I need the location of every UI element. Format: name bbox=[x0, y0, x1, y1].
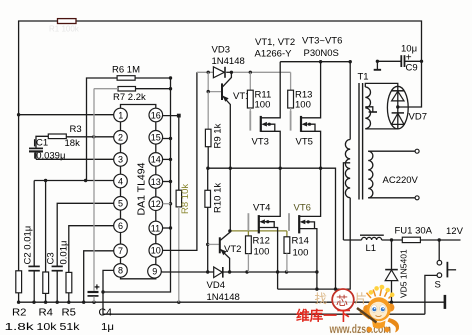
switch S bbox=[425, 240, 456, 314]
svg-text:R5: R5 bbox=[62, 308, 77, 319]
transformer T1 core bbox=[358, 83, 360, 200]
svg-text:5: 5 bbox=[118, 199, 123, 209]
capacitor C3 bbox=[52, 265, 63, 267]
svg-text:R3: R3 bbox=[70, 124, 82, 135]
transformer T1 primary winding bbox=[349, 62, 351, 140]
node pin12 junction bbox=[169, 202, 172, 205]
pin 16 bbox=[149, 108, 163, 122]
pin 6 bbox=[114, 219, 128, 233]
DA1 TL494 right pin chain bbox=[155, 122, 157, 131]
svg-text:2: 2 bbox=[118, 133, 123, 143]
pin 1 bbox=[114, 108, 128, 122]
pin 3 bbox=[114, 153, 128, 167]
node drain rail VT5 bbox=[319, 60, 322, 63]
svg-text:VT1, VT2: VT1, VT2 bbox=[255, 37, 295, 48]
node FU1-switch bbox=[438, 238, 441, 241]
svg-text:R4: R4 bbox=[39, 308, 54, 319]
node bus-C2 bbox=[32, 301, 35, 304]
node rail-R11 bbox=[249, 71, 252, 74]
svg-text:12: 12 bbox=[151, 199, 161, 209]
wire pin5 bbox=[57, 203, 113, 266]
svg-text:A1266-Y: A1266-Y bbox=[255, 49, 293, 60]
pin 13 bbox=[149, 175, 163, 189]
resistor R1 bbox=[58, 19, 77, 24]
wire pin16 stub bbox=[163, 115, 179, 117]
wire VT1 base feed gray bbox=[208, 72, 222, 91]
resistor R10 bbox=[207, 168, 209, 190]
node mid rail VT3/VT4 bbox=[279, 167, 282, 170]
inductor L1 bbox=[343, 239, 361, 241]
svg-text:51k: 51k bbox=[60, 322, 81, 333]
node bus-C4 bbox=[92, 301, 95, 304]
svg-text:R1 100k: R1 100k bbox=[49, 25, 80, 34]
wire VD7 bottom to L1 bbox=[365, 128, 398, 130]
node mid rail VT5/VT6 bbox=[319, 167, 322, 170]
svg-text:1N4148: 1N4148 bbox=[207, 292, 240, 303]
svg-text:VT2: VT2 bbox=[224, 244, 241, 255]
svg-text:R10 1k: R10 1k bbox=[213, 183, 224, 213]
wire W1 to primary bottom bbox=[278, 198, 351, 289]
svg-text:片: 片 bbox=[355, 292, 368, 306]
wire pin2 from R3 bbox=[66, 136, 113, 138]
transistor VT6 MOSFET bbox=[289, 168, 321, 289]
svg-text:100: 100 bbox=[295, 100, 311, 111]
node pin9-R10 bbox=[206, 270, 209, 273]
pin 2 bbox=[114, 131, 128, 145]
svg-text:VT3: VT3 bbox=[252, 137, 269, 148]
svg-text:VD7: VD7 bbox=[409, 112, 427, 123]
node pin14 junction bbox=[169, 158, 172, 161]
node mid rail VT1/VT2 bbox=[229, 167, 232, 170]
svg-text:C1: C1 bbox=[36, 138, 48, 149]
svg-text:C4: C4 bbox=[99, 308, 113, 319]
svg-text:VT4: VT4 bbox=[253, 203, 270, 214]
wire secondary bottom lead + terminal bbox=[368, 197, 415, 199]
node VD4-VT6 source bbox=[315, 270, 318, 273]
svg-text:R7 2.2k: R7 2.2k bbox=[113, 92, 146, 103]
transistor Q VT2 A1266 bbox=[208, 231, 242, 272]
svg-text:S: S bbox=[435, 280, 441, 291]
svg-text:C3: C3 bbox=[46, 252, 57, 264]
diode VD3 1N4148 bbox=[213, 67, 224, 78]
pin 12 bbox=[149, 197, 163, 211]
wire pin4 bbox=[34, 180, 114, 182]
wire left border lower bbox=[18, 115, 20, 271]
ground stub at C9 bbox=[376, 60, 379, 63]
svg-text:10μ: 10μ bbox=[401, 44, 417, 55]
node C4 top bbox=[101, 290, 104, 293]
svg-text:L1: L1 bbox=[366, 243, 377, 254]
wire pin15 stub bbox=[163, 138, 171, 140]
resistor R5 bbox=[66, 272, 72, 292]
wire pin7 bbox=[84, 251, 114, 302]
pin 14 bbox=[149, 153, 163, 167]
node VD4-R14 bbox=[285, 270, 288, 273]
svg-text:15: 15 bbox=[151, 133, 161, 143]
svg-text:4: 4 bbox=[118, 176, 123, 186]
svg-text:8: 8 bbox=[118, 266, 123, 276]
transistor VT4 MOSFET bbox=[248, 168, 280, 289]
svg-text:1: 1 bbox=[118, 110, 123, 120]
wire pin3 bbox=[36, 158, 114, 160]
resistor R12 bbox=[247, 231, 249, 236]
svg-text:芯: 芯 bbox=[336, 294, 348, 308]
resistor R9 bbox=[205, 129, 211, 147]
diode VD5 1N5401 bbox=[391, 240, 393, 269]
resistor R14 bbox=[286, 231, 288, 237]
wire pin1 bbox=[19, 114, 114, 116]
svg-text:C9: C9 bbox=[406, 63, 418, 74]
node VD4-VT2 emitter bbox=[228, 270, 231, 273]
svg-text:11: 11 bbox=[151, 223, 160, 233]
svg-text:1.8k: 1.8k bbox=[5, 322, 36, 333]
svg-text:100: 100 bbox=[254, 247, 270, 258]
resistor R7 bbox=[118, 87, 136, 92]
resistor R8 bbox=[178, 116, 180, 191]
wire pin9 bbox=[161, 271, 317, 273]
node pin13 junction bbox=[169, 180, 172, 183]
wire mid rail bbox=[207, 168, 336, 289]
svg-text:10: 10 bbox=[151, 246, 161, 256]
node VD4-R12 bbox=[245, 270, 248, 273]
wire pin6 bbox=[69, 226, 114, 273]
node pin4-R6 bbox=[84, 179, 87, 182]
transistor Q VT1 A1266 bbox=[222, 72, 250, 168]
svg-text:AC220V: AC220V bbox=[383, 175, 419, 186]
capacitor C1 bbox=[29, 147, 43, 149]
transformer T1 aux winding bbox=[365, 87, 370, 129]
svg-text:1μ: 1μ bbox=[101, 322, 114, 333]
svg-text:0.01μ: 0.01μ bbox=[59, 241, 70, 265]
capacitor C9 bbox=[377, 44, 421, 74]
resistor R6 bbox=[117, 76, 135, 81]
node pin15 junction bbox=[169, 137, 172, 140]
svg-text:16: 16 bbox=[151, 110, 161, 120]
svg-text:9: 9 bbox=[152, 267, 157, 277]
svg-text:6: 6 bbox=[118, 221, 123, 231]
svg-text:R12: R12 bbox=[253, 236, 270, 247]
svg-text:R2: R2 bbox=[12, 308, 27, 319]
wire aux top lead bbox=[365, 83, 398, 87]
wire gray gate rail upper bbox=[197, 71, 213, 73]
pin 10 bbox=[149, 244, 163, 258]
svg-text:100: 100 bbox=[293, 248, 309, 259]
wire pin11 stub bbox=[163, 227, 171, 229]
svg-text:FU1 30A: FU1 30A bbox=[395, 226, 433, 237]
resistor R2 bbox=[16, 271, 22, 293]
node W1-midrail bbox=[334, 287, 337, 290]
node L1-VD5 bbox=[390, 238, 393, 241]
wire pin8 bbox=[103, 270, 114, 292]
resistor R4 bbox=[45, 181, 47, 273]
resistor R3 bbox=[48, 134, 66, 139]
svg-text:R9 1k: R9 1k bbox=[213, 123, 224, 148]
node bus-R8 bbox=[177, 301, 180, 304]
node VD4-VT4 source bbox=[276, 270, 279, 273]
wire VT2 collector riser bbox=[229, 168, 231, 231]
node R7 gray line to pin2 bbox=[92, 135, 95, 138]
svg-text:7: 7 bbox=[118, 246, 123, 256]
svg-text:C2 0.01μ: C2 0.01μ bbox=[23, 226, 34, 265]
node bus-pin7 bbox=[82, 301, 85, 304]
node drain rail T1 primary top bbox=[349, 60, 352, 63]
node pin11 junction bbox=[169, 226, 172, 229]
transformer T1 secondary winding bbox=[368, 151, 373, 198]
svg-text:VT3~VT6: VT3~VT6 bbox=[302, 36, 342, 47]
node rail-VT1base line bbox=[207, 71, 210, 74]
pin 8 bbox=[114, 264, 128, 278]
resistor R11 bbox=[249, 72, 251, 90]
svg-text:T1: T1 bbox=[358, 72, 369, 83]
watermark bbox=[296, 285, 399, 335]
svg-text:VD4: VD4 bbox=[207, 280, 225, 291]
node bus-C3 bbox=[56, 301, 59, 304]
svg-text:14: 14 bbox=[151, 155, 161, 165]
node bus-VD5 bbox=[390, 301, 393, 304]
svg-text:P30N0S: P30N0S bbox=[304, 48, 339, 59]
node pin4-R4 bbox=[44, 179, 47, 182]
wire pin13 stub bbox=[163, 181, 171, 183]
node VT1 base bbox=[207, 90, 210, 93]
DA1 TL494 left pin chain bbox=[120, 122, 122, 131]
wire pin12 stub bbox=[163, 203, 171, 205]
wire gray VT1base to R9 bbox=[207, 92, 209, 130]
DA1 TL494 box bottom edge bbox=[121, 277, 156, 279]
svg-text:找: 找 bbox=[315, 292, 328, 306]
svg-text:VD5 1N5401: VD5 1N5401 bbox=[399, 249, 409, 298]
pin 4 bbox=[114, 174, 128, 188]
diode VD4 1N4148 bbox=[214, 267, 223, 278]
svg-text:18k: 18k bbox=[65, 138, 81, 149]
node VD3 cathode / VT1 collector bbox=[230, 71, 233, 74]
op-amp U1 DA1 TL494 box top edge bbox=[121, 105, 156, 109]
resistor R13 bbox=[290, 72, 292, 90]
wire pin10 to gray rail riser bbox=[162, 72, 197, 250]
pin 9 bbox=[148, 265, 162, 279]
wire olive gate rail lower bbox=[230, 230, 287, 232]
aux center tap mark bbox=[365, 107, 373, 112]
svg-text:VD3: VD3 bbox=[212, 45, 230, 56]
pin 5 bbox=[114, 197, 128, 211]
svg-text:100: 100 bbox=[255, 100, 271, 111]
svg-text:VT6: VT6 bbox=[294, 203, 311, 214]
node C9-border bbox=[420, 60, 423, 63]
mascot bbox=[357, 285, 399, 333]
ground bus bbox=[19, 301, 445, 303]
svg-text:DA1 TL494: DA1 TL494 bbox=[136, 162, 148, 215]
transistor VT3 MOSFET bbox=[250, 62, 280, 169]
wire secondary top lead + terminal bbox=[368, 150, 415, 152]
rectifier VD7 bbox=[387, 86, 427, 129]
svg-text:R8 10k: R8 10k bbox=[180, 184, 191, 214]
wire pin8 node to switch low run bbox=[103, 292, 425, 314]
svg-text:R14: R14 bbox=[292, 236, 309, 247]
wire top rail bbox=[19, 21, 422, 115]
battery negative terminal bar bbox=[444, 295, 447, 309]
capacitor C2 bbox=[33, 181, 35, 267]
svg-text:3: 3 bbox=[118, 155, 123, 165]
wire feedback vertical bbox=[103, 78, 171, 292]
svg-text:13: 13 bbox=[151, 177, 161, 187]
svg-text:12V: 12V bbox=[446, 226, 464, 237]
svg-text:R6 1M: R6 1M bbox=[112, 65, 140, 76]
svg-text:维库一下: 维库一下 bbox=[296, 308, 351, 324]
svg-text:1N4148: 1N4148 bbox=[212, 56, 245, 67]
node VT2 base bbox=[206, 243, 209, 246]
transistor VT5 MOSFET bbox=[291, 62, 321, 169]
node bus-R5 bbox=[67, 301, 70, 304]
wire pin14 stub bbox=[163, 158, 171, 160]
node W1-VT6 bbox=[315, 287, 318, 290]
wire drain rail bbox=[280, 61, 350, 63]
pin 15 bbox=[149, 131, 163, 145]
pin 7 bbox=[114, 244, 128, 258]
wire VD7 center to right border bbox=[398, 61, 422, 107]
node bus-R4 bbox=[44, 301, 47, 304]
fuse FU1 bbox=[402, 237, 420, 242]
node pin1-border junction bbox=[17, 113, 20, 116]
svg-text:10k: 10k bbox=[37, 322, 58, 333]
wire T1 primary center tap bbox=[343, 163, 350, 240]
pin 11 bbox=[149, 221, 163, 235]
svg-text:VT5: VT5 bbox=[296, 137, 313, 148]
